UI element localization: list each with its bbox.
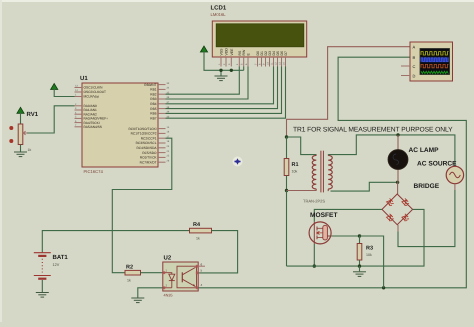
wire AC source bottom to bridge bottom — [398, 190, 455, 247]
microcontroller U1 PIC16C74 — [82, 83, 158, 167]
wire RB3 to LCD E — [166, 67, 249, 100]
svg-text:1k: 1k — [196, 237, 200, 241]
svg-text:R3: R3 — [366, 246, 373, 252]
wire to LCD ground — [220, 70, 222, 75]
wire junction down to lamp — [397, 135, 399, 150]
TR1 core — [320, 151, 322, 193]
AC source generator — [446, 166, 463, 183]
wire oscilloscope channel A to R1 top node — [287, 47, 411, 137]
wire R2 to U2 pin1 — [141, 272, 163, 274]
wire TR1 secondary bottom to lamp bottom node — [331, 182, 398, 191]
svg-text:U1: U1 — [80, 75, 88, 82]
junction R1 bottom node — [285, 189, 288, 192]
svg-text:RC3/SCK/SCL: RC3/SCK/SCL — [136, 141, 157, 145]
resistor R3 — [359, 236, 361, 244]
svg-text:12V: 12V — [53, 263, 60, 267]
wire R3 bottom to ground — [359, 266, 361, 271]
U2 internal LED — [163, 273, 175, 281]
power terminal at U1 MCLR — [51, 84, 58, 90]
wire RB5 to LCD D5 — [166, 67, 278, 109]
ground under RV1 — [14, 152, 27, 157]
wire gate junction to R3 bottom — [314, 265, 359, 267]
resistor R2 — [125, 270, 141, 275]
svg-text:RC2/CCP1: RC2/CCP1 — [141, 136, 157, 140]
svg-text:RB4: RB4 — [150, 102, 156, 106]
bridge diode D4 (bottom-right side) — [401, 214, 409, 222]
optocoupler U2 4N35 — [163, 262, 198, 291]
RV1 body — [18, 124, 23, 145]
RV1 terminal dots — [9, 126, 13, 130]
wire RV1 bottom to ground — [20, 145, 22, 152]
junction U2 pin4 net / MOSFET source branch — [382, 286, 385, 289]
wire junction to bridge top — [397, 182, 399, 194]
svg-text:RC7/RX/DT: RC7/RX/DT — [140, 160, 157, 164]
wire R4 to U2 pin5 — [198, 231, 237, 273]
U2 inner phototransistor box — [177, 266, 197, 288]
power terminal above RV1 — [17, 107, 24, 113]
svg-text:4N35: 4N35 — [164, 294, 173, 298]
svg-text:AC SOURCE: AC SOURCE — [417, 161, 457, 168]
wire R1 net to gate junction — [287, 265, 315, 267]
junction R3 top — [358, 234, 361, 237]
resistor R1 — [284, 159, 289, 176]
svg-text:MCLR/Vpp: MCLR/Vpp — [84, 95, 100, 99]
oscilloscope waveform channel B (blue) — [421, 57, 449, 62]
wire RB4 to LCD D4 — [166, 67, 274, 104]
svg-text:D7: D7 — [284, 51, 288, 56]
svg-text:BAT1: BAT1 — [53, 254, 69, 261]
svg-text:TR1 FOR SIGNAL MEASUREMENT PUR: TR1 FOR SIGNAL MEASUREMENT PURPOSE ONLY — [293, 127, 453, 134]
bridge diode D1 (top-left side) — [386, 198, 394, 206]
wire node down to R1 — [286, 137, 288, 159]
junction lamp bottom — [396, 181, 399, 184]
svg-text:LCD1: LCD1 — [211, 5, 227, 12]
svg-text:1k: 1k — [28, 148, 32, 152]
ground under R3 — [353, 272, 366, 277]
svg-text:OSC2/CLKOUT: OSC2/CLKOUT — [84, 90, 107, 94]
wire lamp bottom to junction — [397, 169, 399, 182]
battery BAT1 — [34, 253, 51, 279]
bridge rectifier — [382, 194, 413, 225]
junction R3 bottom — [358, 264, 361, 267]
wire bridge left to MOSFET drain — [314, 209, 382, 222]
LCD display LCD1 LM016L — [212, 21, 306, 57]
U1 left pin stubs and labels — [75, 87, 83, 89]
wire RB2 to LCD RS — [166, 67, 240, 95]
wire BAT1 plus to R4 — [42, 231, 189, 253]
bridge bottom stub — [397, 225, 399, 232]
U2 pin connection squares — [162, 271, 165, 274]
svg-text:A: A — [413, 44, 416, 49]
RV1 wiper arrow — [23, 131, 28, 135]
svg-text:RB0/INT: RB0/INT — [144, 83, 156, 87]
wire U1 RC2/CCP1 to R2 — [112, 138, 172, 273]
junction lamp top — [396, 133, 399, 136]
svg-text:1k: 1k — [127, 279, 131, 283]
junction VEE — [230, 69, 233, 72]
ground under LCD — [215, 76, 228, 81]
svg-text:VEE: VEE — [230, 48, 234, 56]
svg-text:D: D — [413, 74, 416, 79]
svg-text:10k: 10k — [292, 170, 298, 174]
svg-text:R1: R1 — [292, 162, 299, 168]
svg-text:MOSFET: MOSFET — [310, 212, 337, 219]
svg-text:RB3: RB3 — [150, 97, 156, 101]
svg-text:RB5: RB5 — [150, 107, 156, 111]
transformer TR1 TRAN-2P2S — [312, 155, 316, 189]
TR1 pin links — [315, 154, 317, 157]
svg-text:RB7: RB7 — [150, 116, 156, 120]
svg-text:RB6: RB6 — [150, 112, 156, 116]
transistor MOSFET — [309, 222, 331, 244]
oscilloscope waveform channel D (green zigzag) — [421, 71, 448, 73]
oscilloscope waveform channel C (orange square) — [421, 64, 449, 67]
cursor marker — [233, 157, 243, 167]
LCD screen — [216, 24, 304, 47]
wire U2 pin4 to oscilloscope channel B — [198, 57, 466, 288]
wire power to U1 MCLR — [54, 89, 74, 97]
wire BAT1 minus to ground — [41, 280, 43, 292]
wire source node down to U2 pin4 net — [360, 236, 384, 288]
svg-text:VDD: VDD — [225, 48, 229, 56]
svg-text:VSS: VSS — [220, 48, 224, 56]
svg-text:RS: RS — [238, 50, 242, 56]
wire node to TR1 primary top — [287, 137, 317, 155]
junction VSS — [219, 69, 222, 72]
bridge diode D3 (bottom-left side) — [386, 214, 394, 222]
svg-text:B: B — [413, 55, 416, 60]
wire node to TR1 primary bottom — [287, 190, 317, 192]
junction R1 top node — [285, 135, 288, 138]
svg-text:LM016L: LM016L — [211, 12, 227, 17]
svg-text:RA5/AN4/SS: RA5/AN4/SS — [84, 125, 102, 129]
svg-text:BRIDGE: BRIDGE — [414, 183, 440, 190]
wire LCD power run — [204, 51, 244, 70]
svg-text:RC1/T1OSI/CCP2: RC1/T1OSI/CCP2 — [131, 132, 157, 136]
ground under BAT1 — [36, 293, 49, 298]
oscilloscope — [410, 42, 453, 81]
U2 pin6 stub — [198, 265, 205, 267]
power terminal left of LCD — [200, 46, 207, 52]
wire U2 pin2 to ground — [138, 288, 163, 298]
oscilloscope C stub — [401, 65, 410, 67]
svg-text:RC4/SDI/SDA: RC4/SDI/SDA — [136, 146, 157, 150]
svg-text:R2: R2 — [126, 265, 133, 271]
oscilloscope D stub — [401, 75, 410, 77]
AC source bottom stub — [454, 184, 456, 190]
junction gate net — [313, 264, 316, 267]
svg-text:C: C — [413, 64, 416, 69]
U1 right pin stubs and labels — [158, 84, 166, 86]
svg-text:10k: 10k — [366, 253, 372, 257]
ground under U2 — [131, 298, 144, 303]
wire bridge right down to R3 bottom net — [360, 209, 425, 266]
lamp AC LAMP — [388, 150, 408, 170]
svg-text:PIC16C74: PIC16C74 — [84, 169, 104, 174]
svg-text:OSC1/CLKIN: OSC1/CLKIN — [84, 86, 104, 90]
wire R1 bottom to node — [286, 176, 288, 191]
svg-text:R4: R4 — [193, 222, 201, 228]
wire R3 bottom — [359, 260, 361, 266]
svg-text:RV1: RV1 — [27, 111, 39, 118]
wire node down to gate net — [286, 191, 288, 267]
oscilloscope waveform channel A (yellow) — [421, 52, 449, 55]
U2 internal phototransistor — [181, 272, 183, 282]
wire RB6 to LCD D6 — [166, 67, 282, 114]
bridge diode D2 (top-right side) — [401, 198, 409, 206]
wire MOSFET gate down — [313, 244, 315, 266]
wire RB7 to LCD D7 — [166, 67, 286, 119]
oscilloscope screen — [420, 49, 450, 75]
svg-text:RC6/TX/CK: RC6/TX/CK — [140, 156, 158, 160]
svg-text:TRAN-2P2S: TRAN-2P2S — [303, 199, 325, 204]
svg-text:AC LAMP: AC LAMP — [409, 147, 440, 154]
svg-text:RB2: RB2 — [150, 92, 156, 96]
wire RV1 top — [20, 113, 22, 124]
wire MOSFET source to R3 top — [331, 235, 359, 237]
wire TR1 secondary top to AC source top — [328, 135, 455, 166]
svg-text:RC0/T1OSO/T1CKI: RC0/T1OSO/T1CKI — [129, 127, 157, 131]
wire LCD RW down to ground run — [243, 67, 245, 71]
svg-text:RC5/SDO: RC5/SDO — [142, 151, 157, 155]
svg-text:U2: U2 — [164, 255, 172, 262]
svg-text:RB1: RB1 — [150, 88, 156, 92]
wire RV1 wiper to U1 RA0 — [27, 106, 75, 133]
resistor R4 — [190, 228, 212, 233]
